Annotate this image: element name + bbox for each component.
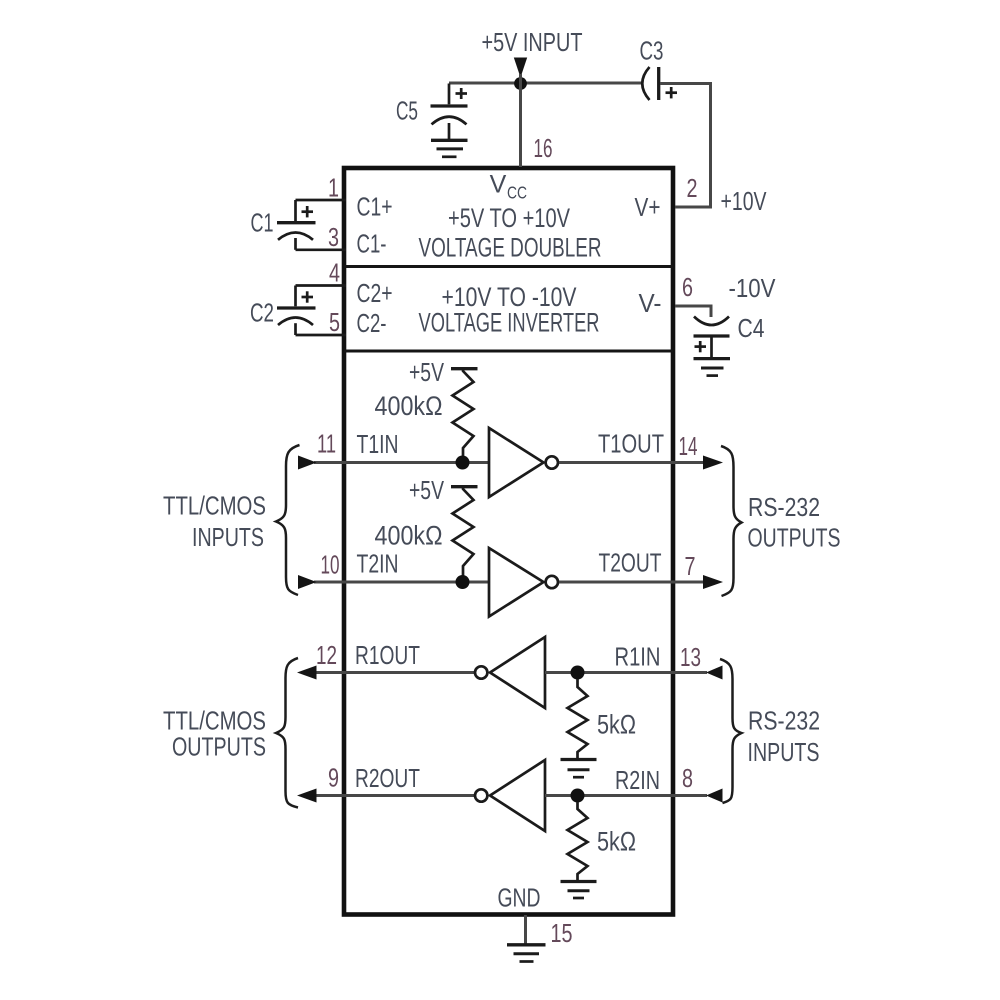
- svg-text:+5V: +5V: [409, 475, 444, 505]
- svg-text:13: 13: [680, 642, 701, 672]
- T2IN wire: [314, 581, 489, 584]
- ground below 5k (R2): [561, 882, 597, 899]
- svg-text:C2-: C2-: [357, 308, 387, 338]
- receiver R2 bubble: [475, 789, 487, 801]
- svg-text:2: 2: [687, 173, 698, 203]
- svg-text:10: 10: [321, 550, 340, 580]
- node dot T2: [456, 575, 470, 589]
- pin 3 stub: [296, 248, 347, 251]
- svg-text:OUTPUTS: OUTPUTS: [748, 523, 841, 553]
- svg-text:GND: GND: [498, 883, 541, 913]
- svg-text:OUTPUTS: OUTPUTS: [172, 732, 266, 762]
- R1OUT wire: [315, 671, 475, 674]
- svg-text:T1IN: T1IN: [357, 429, 399, 459]
- receiver R2: [490, 760, 545, 831]
- node junction dot at +5V input: [514, 77, 527, 90]
- svg-text:400kΩ: 400kΩ: [375, 521, 443, 551]
- svg-text:RS-232: RS-232: [748, 492, 820, 522]
- svg-text:TTL/CMOS: TTL/CMOS: [163, 491, 266, 521]
- wire pin 16 vertical: [519, 74, 522, 167]
- wire C3 to V+ corner: [660, 84, 711, 208]
- svg-text:5kΩ: 5kΩ: [597, 827, 636, 857]
- svg-text:8: 8: [682, 763, 693, 793]
- svg-text:+5V: +5V: [409, 357, 444, 387]
- ground below C4: [694, 359, 731, 376]
- R2IN input arrow: [706, 789, 723, 803]
- pin 5 stub: [296, 334, 347, 337]
- svg-text:T2OUT: T2OUT: [599, 548, 662, 578]
- T2OUT wire: [559, 581, 706, 584]
- svg-text:R2OUT: R2OUT: [355, 763, 420, 793]
- svg-text:VOLTAGE DOUBLER: VOLTAGE DOUBLER: [419, 233, 602, 263]
- resistor 400k (T1 pullup): [453, 369, 474, 462]
- T1IN wire: [314, 461, 489, 464]
- resistor 5k (R2): [568, 802, 588, 881]
- capacitor C1: [277, 200, 316, 250]
- svg-text:VOLTAGE INVERTER: VOLTAGE INVERTER: [419, 308, 600, 338]
- T1OUT wire: [559, 461, 706, 464]
- svg-text:INPUTS: INPUTS: [192, 522, 264, 552]
- capacitor C3: [642, 67, 677, 100]
- svg-text:RS-232: RS-232: [748, 706, 820, 736]
- R1IN input arrow: [706, 666, 723, 680]
- svg-text:R1OUT: R1OUT: [355, 640, 420, 670]
- svg-text:C5: C5: [396, 96, 418, 126]
- svg-text:-10V: -10V: [729, 273, 777, 303]
- brace RS-232 inputs: [720, 659, 742, 803]
- ground below 5k (R1): [561, 760, 597, 778]
- resistor 5k (R1): [568, 679, 588, 759]
- pin 1 stub: [296, 199, 347, 202]
- svg-text:C2: C2: [250, 298, 274, 328]
- svg-text:11: 11: [317, 429, 336, 459]
- svg-text:V+: V+: [635, 192, 661, 222]
- R1OUT output arrow: [297, 666, 317, 680]
- svg-text:1: 1: [328, 173, 339, 203]
- inverter T1: [489, 428, 544, 497]
- svg-text:C1-: C1-: [357, 229, 387, 259]
- input arrow down: [514, 58, 527, 78]
- svg-text:C2+: C2+: [357, 278, 393, 308]
- svg-text:T2IN: T2IN: [357, 549, 399, 579]
- svg-text:400kΩ: 400kΩ: [375, 391, 443, 421]
- capacitor C5: [431, 84, 468, 140]
- capacitor C4: [694, 317, 730, 358]
- svg-text:7: 7: [685, 551, 696, 581]
- svg-text:R2IN: R2IN: [615, 765, 660, 795]
- svg-text:INPUTS: INPUTS: [748, 737, 820, 767]
- divider between doubler and inverter sections: [344, 265, 673, 268]
- node dot T1: [456, 456, 470, 470]
- divider below inverter section: [344, 350, 673, 353]
- svg-text:14: 14: [679, 431, 698, 461]
- pin 15 wire: [524, 915, 527, 944]
- R2OUT output arrow: [297, 789, 317, 803]
- svg-text:CC: CC: [507, 183, 527, 203]
- IC body box: [344, 168, 673, 915]
- svg-text:C1: C1: [251, 208, 274, 238]
- svg-text:R1IN: R1IN: [615, 642, 661, 672]
- svg-text:C4: C4: [738, 313, 765, 343]
- R2OUT wire: [315, 794, 475, 797]
- R1IN wire: [545, 671, 707, 674]
- svg-text:+5V TO +10V: +5V TO +10V: [448, 203, 570, 233]
- inverter T2: [489, 548, 544, 617]
- svg-text:T1OUT: T1OUT: [598, 429, 664, 459]
- +5V rail bar (T2): [451, 485, 478, 488]
- T2OUT output arrow: [703, 575, 723, 589]
- svg-text:V: V: [490, 171, 507, 199]
- svg-text:16: 16: [534, 133, 553, 163]
- receiver R1: [490, 637, 545, 708]
- +5V rail bar (T1): [451, 367, 478, 370]
- inverter T2 bubble: [546, 576, 558, 588]
- svg-text:4: 4: [329, 258, 340, 288]
- wire +5V rail horizontal: [449, 82, 642, 85]
- svg-text:6: 6: [682, 272, 693, 302]
- brace TTL/CMOS outputs: [276, 658, 298, 808]
- svg-text:5kΩ: 5kΩ: [597, 710, 636, 740]
- T2IN input arrow: [298, 575, 317, 589]
- resistor 400k (T2 pullup): [453, 487, 474, 582]
- svg-text:15: 15: [551, 918, 573, 948]
- T1OUT output arrow: [703, 456, 723, 470]
- svg-text:+5V INPUT: +5V INPUT: [482, 27, 583, 57]
- node dot R1: [571, 666, 585, 680]
- T1IN input arrow: [298, 456, 317, 470]
- svg-text:12: 12: [316, 640, 337, 670]
- svg-text:V-: V-: [639, 288, 662, 318]
- brace RS-232 outputs: [721, 446, 742, 596]
- svg-text:5: 5: [329, 307, 340, 337]
- ground below C5: [431, 140, 468, 157]
- svg-text:C3: C3: [640, 36, 664, 66]
- pin 6 stub and wire to C4: [675, 306, 711, 317]
- R2IN wire: [545, 794, 707, 797]
- svg-text:9: 9: [328, 763, 339, 793]
- svg-text:+10V: +10V: [721, 186, 767, 216]
- brace TTL/CMOS inputs: [276, 445, 300, 595]
- inverter T1 bubble: [546, 456, 558, 468]
- pin 4 stub: [296, 284, 347, 287]
- ground at pin 15: [507, 945, 546, 962]
- svg-text:C1+: C1+: [357, 192, 393, 222]
- node dot R2: [571, 789, 585, 803]
- capacitor C2: [277, 286, 316, 336]
- svg-text:3: 3: [328, 222, 339, 252]
- receiver R1 bubble: [475, 666, 487, 678]
